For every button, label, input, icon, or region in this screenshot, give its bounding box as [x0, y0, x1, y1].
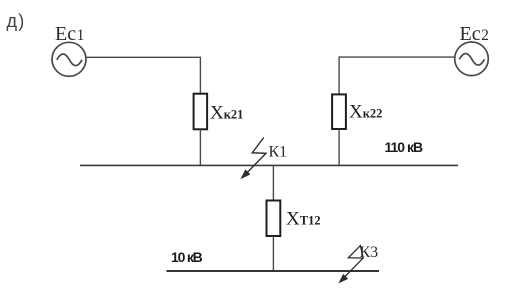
svg-text:110 кВ: 110 кВ: [385, 139, 423, 155]
wire Xk21 to bus: [199, 129, 201, 165]
bus 110 kV: [80, 164, 458, 166]
fault K1 arrowhead: [240, 169, 250, 179]
wire Ec1 to Xk21: [86, 57, 200, 93]
svg-text:К3: К3: [360, 244, 379, 261]
fault K3 arrowhead: [338, 274, 348, 284]
svg-text:Xк22: Xк22: [349, 102, 382, 123]
source Ec2: [455, 42, 489, 76]
source Ec1: [52, 42, 86, 76]
fault K3 lightning arrow: [340, 246, 363, 282]
reactor Xk21: [194, 94, 208, 130]
svg-text:10 кВ: 10 кВ: [171, 249, 203, 265]
wire Xk22 to bus: [338, 129, 340, 165]
svg-text:д): д): [7, 11, 25, 31]
svg-text:Xк21: Xк21: [210, 103, 243, 124]
wire XT12 to lower bus: [272, 236, 274, 271]
svg-text:XТ12: XТ12: [286, 209, 321, 230]
reactor XT12: [267, 201, 281, 237]
svg-text:К1: К1: [269, 144, 288, 161]
bus 10 kV: [167, 270, 380, 272]
wire Ec2 to Xk22: [339, 57, 455, 94]
wire bus to XT12: [272, 165, 274, 200]
reactor Xk22: [332, 94, 346, 129]
fault K1 lightning arrow: [243, 138, 267, 178]
